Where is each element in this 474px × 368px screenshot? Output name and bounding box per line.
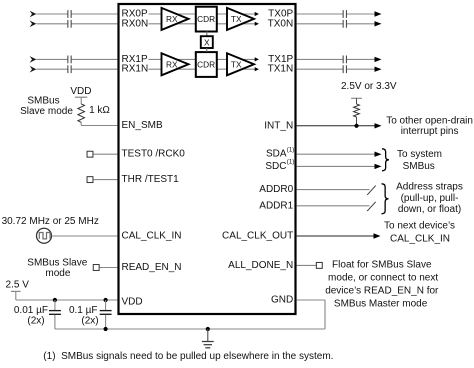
pin TX1N bbox=[268, 64, 294, 75]
wire pad to TEST0 bbox=[93, 153, 117, 155]
wire crosspoint to CDR1 bbox=[206, 48, 208, 52]
svg-text:(1): (1) bbox=[287, 159, 295, 166]
pin EN_SMB bbox=[122, 120, 163, 131]
value label 0.01 uF (2x) bbox=[14, 305, 48, 327]
annotation To other open-drain interrupt pins bbox=[386, 116, 473, 137]
internal arrow TX1N bbox=[255, 67, 259, 71]
svg-text:ALL_DONE_N: ALL_DONE_N bbox=[228, 260, 293, 271]
svg-text:TX1N: TX1N bbox=[268, 64, 294, 75]
TX driver channel 1 bbox=[227, 53, 254, 75]
value label 1 kOhm bbox=[89, 105, 110, 116]
pin READ_EN_N bbox=[122, 262, 182, 273]
pin TX1P bbox=[268, 54, 293, 65]
wire resistor to EN_SMB bbox=[81, 122, 117, 125]
pin SDC bbox=[265, 159, 294, 172]
svg-text:ADDR1: ADDR1 bbox=[259, 200, 293, 211]
svg-text:2.5 V: 2.5 V bbox=[6, 279, 30, 290]
pin TEST0 /RCK0 bbox=[122, 149, 186, 160]
svg-text:mode: mode bbox=[45, 268, 70, 279]
strap pad ALL_DONE_N bbox=[316, 262, 322, 268]
AC coupling capacitor on RX0P bbox=[68, 10, 71, 18]
capacitor 0.01 uF bbox=[49, 300, 61, 329]
svg-text:CAL_CLK_IN: CAL_CLK_IN bbox=[390, 234, 450, 245]
junction node cap C2 bottom bbox=[104, 327, 108, 331]
internal arrow TX0N bbox=[255, 22, 259, 26]
internal arrow TX1P bbox=[255, 57, 259, 61]
input arrow RX1N bbox=[30, 66, 37, 73]
svg-text:To system: To system bbox=[397, 149, 442, 160]
svg-text:RX1N: RX1N bbox=[122, 64, 149, 75]
CDR block channel 1 bbox=[196, 52, 217, 77]
svg-text:30.72 MHz or 25 MHz: 30.72 MHz or 25 MHz bbox=[2, 216, 99, 227]
output arrow TX0N bbox=[375, 21, 382, 26]
supply rail symbol (INT_N pull-up) bbox=[351, 98, 362, 104]
pin RX1P bbox=[122, 54, 148, 65]
junction node cap C1 top bbox=[53, 298, 57, 302]
annotation Float for SMBus Slave mode bbox=[325, 259, 439, 309]
svg-text:device’s READ_EN_N for: device’s READ_EN_N for bbox=[325, 286, 439, 297]
wire internal pair channel 0 bbox=[149, 14, 256, 24]
arrow SDA bbox=[375, 152, 382, 157]
capacitor 0.1 uF bbox=[100, 300, 112, 329]
2.5 V rail symbol bbox=[11, 291, 21, 300]
svg-text:Slave mode: Slave mode bbox=[20, 106, 73, 117]
output arrow TX1P bbox=[375, 57, 382, 62]
ground bbox=[202, 329, 214, 348]
AC coupling capacitor on TX0P bbox=[343, 10, 346, 18]
junction node cap C2 top bbox=[104, 298, 108, 302]
wire SDA bbox=[297, 153, 375, 155]
svg-text:2.5V or 3.3V: 2.5V or 3.3V bbox=[341, 81, 397, 92]
supply label 2.5 V bbox=[6, 279, 30, 290]
wire oscillator to CAL_CLK_IN bbox=[52, 235, 118, 237]
annotation Address straps bbox=[396, 182, 463, 215]
RX amplifier channel 1 bbox=[162, 53, 189, 75]
output arrow TX1N bbox=[375, 67, 382, 72]
CDR block channel 0 bbox=[196, 7, 217, 32]
AC coupling capacitor on RX0N bbox=[68, 20, 71, 28]
power label VDD (pull-up supply) bbox=[70, 86, 91, 97]
IC body U1 bbox=[119, 4, 296, 314]
wire ground return rail bbox=[55, 328, 325, 330]
wire TX0P output line bbox=[297, 13, 375, 15]
internal arrow TX0P bbox=[255, 12, 259, 16]
output arrow TX0P bbox=[375, 11, 382, 16]
svg-text:interrupt pins: interrupt pins bbox=[401, 126, 459, 137]
resistor INT_N pull-up bbox=[354, 104, 360, 117]
wire GND to ground rail bbox=[297, 300, 325, 329]
resistor 1 kOhm pull-up bbox=[78, 104, 85, 122]
input arrow RX1P bbox=[30, 56, 37, 63]
pin THR /TEST1 bbox=[122, 174, 180, 185]
svg-text:GND: GND bbox=[271, 295, 293, 306]
pin TX0N bbox=[268, 18, 294, 29]
svg-text:SMBus Slave: SMBus Slave bbox=[27, 257, 87, 268]
brace address straps bbox=[382, 184, 389, 214]
pin CAL_CLK_OUT bbox=[222, 231, 293, 242]
svg-text:0.01 µF: 0.01 µF bbox=[14, 305, 48, 316]
pin CAL_CLK_IN bbox=[122, 231, 182, 242]
wire SDC bbox=[297, 165, 375, 167]
svg-text:SMBus: SMBus bbox=[403, 161, 435, 172]
svg-text:TX: TX bbox=[231, 14, 242, 24]
svg-text:INT_N: INT_N bbox=[264, 120, 293, 131]
wire pad to READ_EN_N bbox=[99, 267, 117, 269]
AC coupling capacitor on RX1N bbox=[68, 65, 71, 73]
svg-text:(2x): (2x) bbox=[27, 315, 44, 326]
svg-text:To next device’s: To next device’s bbox=[384, 221, 455, 232]
wire TX1P output line bbox=[297, 58, 375, 60]
pin ADDR1 bbox=[259, 200, 293, 211]
TX driver channel 0 bbox=[227, 8, 254, 30]
wire RX0P input line bbox=[36, 13, 117, 15]
svg-text:TEST0 /RCK0: TEST0 /RCK0 bbox=[122, 149, 186, 160]
svg-text:CAL_CLK_OUT: CAL_CLK_OUT bbox=[222, 231, 293, 242]
svg-text:VDD: VDD bbox=[70, 86, 91, 97]
pin SDA bbox=[266, 146, 294, 159]
input arrow RX0P bbox=[30, 11, 37, 18]
pin RX1N bbox=[122, 64, 149, 75]
svg-text:CAL_CLK_IN: CAL_CLK_IN bbox=[122, 231, 182, 242]
svg-text:(2x): (2x) bbox=[81, 315, 98, 326]
wire INT_N bbox=[297, 125, 375, 127]
oscillator Y1 bbox=[37, 228, 52, 243]
crosspoint switch X bbox=[201, 36, 213, 48]
wire CDR0 to crosspoint bbox=[206, 31, 208, 36]
brace SMBus group bbox=[382, 149, 389, 171]
pin TX0P bbox=[268, 9, 293, 20]
svg-text:SDC: SDC bbox=[265, 161, 286, 172]
svg-text:0.1 µF: 0.1 µF bbox=[69, 305, 98, 316]
svg-text:READ_EN_N: READ_EN_N bbox=[122, 262, 182, 273]
annotation To system SMBus bbox=[397, 149, 442, 172]
svg-text:CDR: CDR bbox=[197, 59, 215, 69]
svg-text:ADDR0: ADDR0 bbox=[259, 184, 293, 195]
wire TX1N output line bbox=[297, 68, 375, 70]
svg-text:RX: RX bbox=[166, 14, 178, 24]
annotation SMBus Slave mode bbox=[20, 96, 73, 117]
svg-text:CDR: CDR bbox=[197, 14, 215, 24]
svg-text:RX: RX bbox=[166, 59, 178, 69]
svg-text:Float for SMBus Slave: Float for SMBus Slave bbox=[332, 259, 432, 270]
svg-text:(1) SMBus signals need to be: (1) SMBus signals need to be pulled up e… bbox=[43, 351, 333, 362]
input arrow RX0N bbox=[30, 21, 37, 28]
svg-text:X: X bbox=[204, 37, 210, 47]
strap slash ADDR0 bbox=[367, 186, 376, 195]
wire RX1P input line bbox=[36, 58, 117, 60]
value label 0.1 uF (2x) bbox=[69, 305, 99, 327]
test point pad THR bbox=[87, 177, 93, 183]
svg-text:TX: TX bbox=[231, 59, 242, 69]
pin GND bbox=[271, 295, 293, 306]
strap pad READ_EN_N bbox=[93, 265, 99, 271]
wire 2.5 V rail to VDD bbox=[16, 299, 118, 301]
svg-text:SDA: SDA bbox=[266, 149, 287, 160]
arrow CAL_CLK_OUT bbox=[374, 233, 381, 238]
arrow INT_N out bbox=[375, 123, 382, 128]
svg-text:SMBus Master mode: SMBus Master mode bbox=[334, 299, 428, 310]
annotation To next device CAL_CLK_IN bbox=[384, 221, 455, 245]
wire ADDR0 bbox=[297, 189, 370, 191]
svg-text:RX0N: RX0N bbox=[122, 18, 149, 29]
pin INT_N bbox=[264, 120, 293, 131]
strap slash ADDR1 bbox=[367, 202, 376, 211]
test point pad TEST0 bbox=[87, 151, 93, 157]
pin ADDR0 bbox=[259, 184, 293, 195]
VDD rail symbol bbox=[75, 97, 87, 104]
svg-text:1 kΩ: 1 kΩ bbox=[89, 105, 110, 116]
wire CAL_CLK_OUT bbox=[297, 235, 374, 237]
pin RX0P bbox=[122, 9, 148, 20]
wire resistor to INT_N node bbox=[356, 117, 358, 126]
wire TX0N output line bbox=[297, 23, 375, 25]
junction node ground tap bbox=[206, 327, 210, 331]
svg-text:(1): (1) bbox=[287, 146, 295, 153]
supply label 2.5V or 3.3V bbox=[341, 81, 397, 92]
wire pad to THR bbox=[93, 179, 117, 181]
arrow SDC bbox=[375, 164, 382, 169]
AC coupling capacitor on TX1P bbox=[343, 56, 346, 64]
svg-text:Address straps: Address straps bbox=[396, 182, 463, 193]
RX amplifier channel 0 bbox=[162, 8, 189, 30]
annotation 30.72 MHz or 25 MHz bbox=[2, 216, 99, 227]
footnote (1) bbox=[43, 351, 333, 362]
AC coupling capacitor on TX1N bbox=[343, 65, 346, 73]
wire RX0N input line bbox=[36, 23, 117, 25]
svg-text:mode, or connect to next: mode, or connect to next bbox=[328, 273, 438, 284]
AC coupling capacitor on RX1P bbox=[68, 56, 71, 64]
pin RX0N bbox=[122, 18, 149, 29]
wire ADDR1 bbox=[297, 205, 370, 207]
svg-text:THR /TEST1: THR /TEST1 bbox=[122, 174, 180, 185]
junction node INT_N pull-up bbox=[354, 124, 358, 128]
svg-text:VDD: VDD bbox=[122, 296, 143, 307]
pin VDD bbox=[122, 296, 143, 307]
wire RX1N input line bbox=[36, 68, 117, 70]
AC coupling capacitor on TX0N bbox=[343, 20, 346, 28]
pin ALL_DONE_N bbox=[228, 260, 293, 271]
svg-text:TX0N: TX0N bbox=[268, 18, 294, 29]
svg-text:(pull-up, pull-: (pull-up, pull- bbox=[401, 193, 459, 204]
annotation SMBus Slave mode (READ_EN_N) bbox=[27, 257, 87, 279]
svg-text:down, or float): down, or float) bbox=[398, 204, 461, 215]
svg-text:EN_SMB: EN_SMB bbox=[122, 120, 163, 131]
wire ALL_DONE_N bbox=[297, 264, 316, 266]
wire internal pair channel 1 bbox=[149, 59, 256, 69]
